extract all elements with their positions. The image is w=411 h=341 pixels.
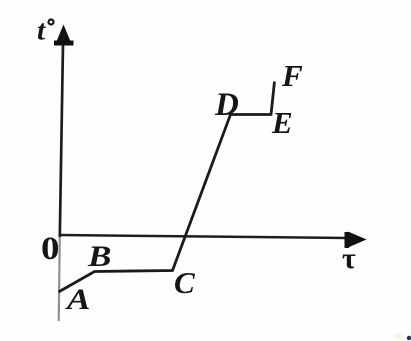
- svg-text:F: F: [281, 58, 303, 93]
- svg-text:A: A: [65, 283, 91, 316]
- svg-text:B: B: [87, 240, 111, 273]
- svg-text:D: D: [214, 87, 239, 123]
- svg-text:E: E: [271, 105, 293, 140]
- svg-text:C: C: [174, 265, 195, 300]
- svg-text:τ: τ: [342, 242, 356, 275]
- svg-text:0: 0: [41, 230, 59, 267]
- svg-text:t: t: [37, 15, 46, 47]
